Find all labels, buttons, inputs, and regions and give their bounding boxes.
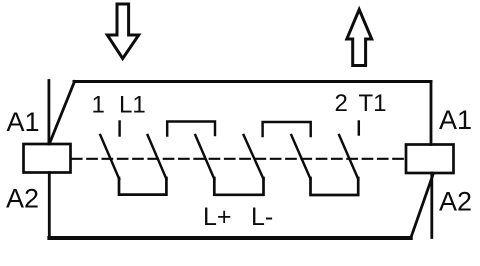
svg-text:1: 1	[92, 92, 105, 119]
enclosure top edge	[74, 80, 431, 83]
top bridge bar 2	[263, 122, 311, 136]
bottom bridge bar 3	[311, 178, 359, 195]
contact blade 5	[291, 135, 310, 179]
bottom bridge bar 2	[214, 178, 263, 195]
enclosure top-left chamfer	[50, 82, 75, 144]
bottom bridge bar 1	[119, 178, 166, 195]
contact blade 3	[195, 135, 214, 179]
wire A1 lead left	[48, 81, 51, 145]
svg-text:2: 2	[335, 90, 348, 117]
enclosure bottom edge	[49, 236, 411, 240]
enclosure bottom-right chamfer	[411, 175, 433, 239]
svg-text:L-: L-	[251, 203, 273, 231]
contact blade 4	[244, 135, 264, 179]
coil box left (A1/A2)	[24, 144, 71, 173]
svg-text:A2: A2	[439, 186, 472, 216]
svg-text:A1: A1	[439, 105, 472, 135]
wire A2 lead right	[430, 173, 433, 238]
down arrow (coil energize marker)	[107, 4, 138, 59]
svg-text:T1: T1	[359, 90, 387, 117]
dashed actuator link from coil to contacts	[72, 158, 406, 160]
contact blade 1	[100, 135, 119, 179]
enclosure right edge	[430, 82, 433, 145]
contact blade 2	[148, 135, 167, 179]
svg-text:L1: L1	[119, 92, 146, 119]
svg-text:A1: A1	[7, 107, 40, 137]
svg-text:A2: A2	[6, 184, 39, 214]
terminal stub 1/L1	[118, 122, 120, 136]
wire left below coil box	[48, 173, 51, 239]
svg-text:L+: L+	[203, 203, 232, 231]
coil box right (A1/A2)	[406, 145, 454, 174]
terminal stub 2/T1	[358, 122, 360, 135]
contact blade 6	[339, 135, 358, 179]
top bridge bar 1	[167, 122, 215, 136]
up arrow (release marker)	[347, 10, 372, 66]
